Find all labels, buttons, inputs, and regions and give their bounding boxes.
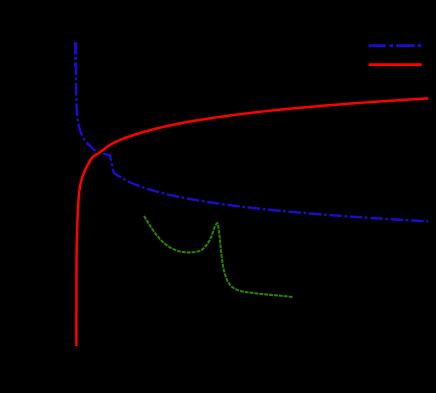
- legend blue dash-dot sample: [369, 44, 422, 47]
- red solid curve (increasing, vertical asymptote at x~76): [76, 98, 428, 346]
- green dashed curve (dip and sharp lambda peak): [144, 216, 293, 297]
- blue dash-dot curve (decreasing, vertical asymptote at x~76): [76, 42, 428, 221]
- blue asymptote companion stroke: [74, 42, 76, 67]
- legend red solid sample: [369, 63, 422, 66]
